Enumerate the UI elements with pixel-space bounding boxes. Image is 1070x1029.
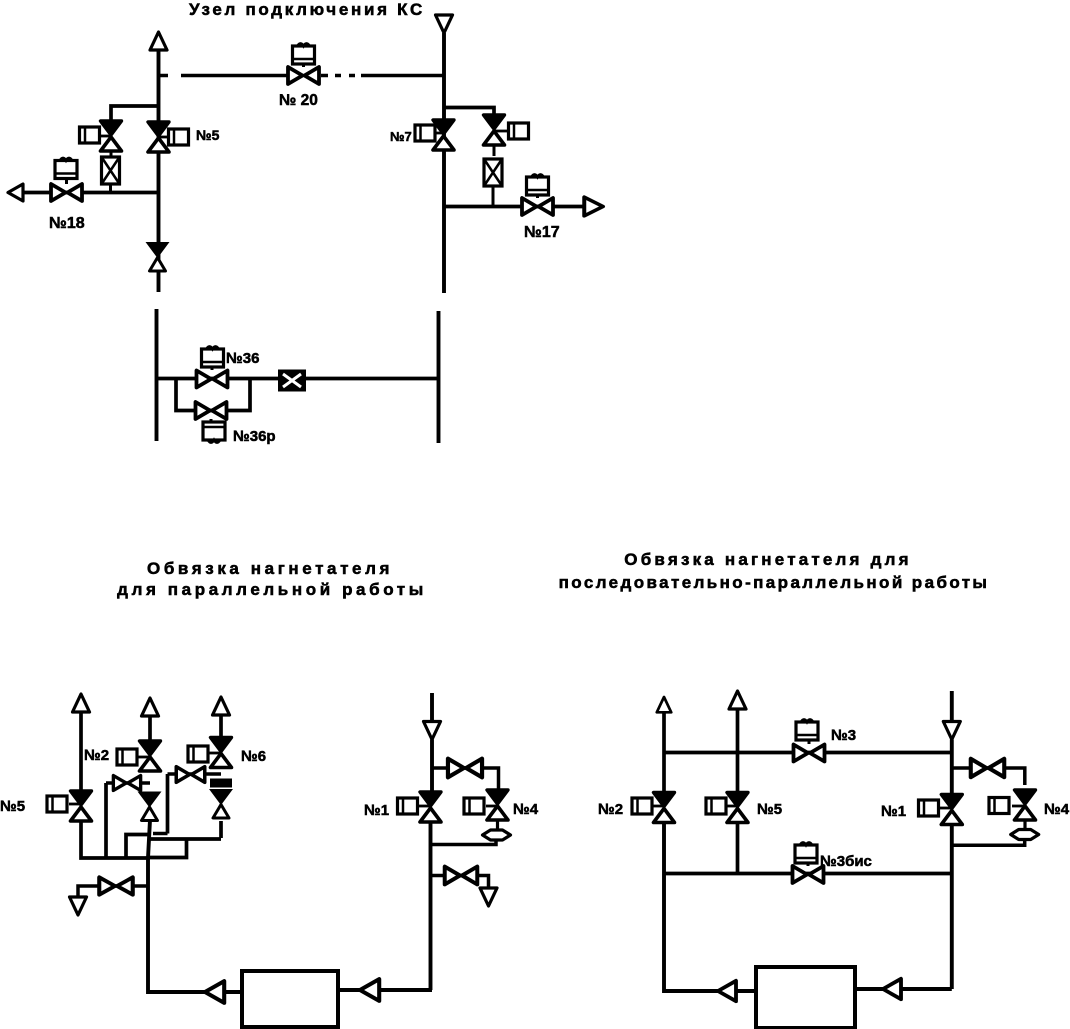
svg-text:последовательно-параллельной р: последовательно-параллельной работы [559,573,990,592]
arrow down drain [70,897,87,915]
filter (left bypass) [102,157,120,184]
wire: main right column upper [950,691,954,726]
bypass valve with actuator (right top) [484,115,505,145]
wire: mid header [150,837,221,841]
black box on line 3 [210,779,232,788]
valve №6 on line 3 [211,738,232,768]
valve on line 2 [140,741,161,771]
wire: upper header H1 [664,751,952,755]
svg-text:для параллельной работы: для параллельной работы [117,580,427,599]
wire: line 1 lower to pump [664,823,756,991]
wire: bypass 2 [168,772,222,776]
svg-text:№5: №5 [0,798,25,815]
svg-text:№5: №5 [196,127,220,143]
check valve on left header [148,243,168,271]
arrow down on discharge column [424,722,441,740]
small valve on right drain [445,867,478,885]
svg-text:№2: №2 [598,801,623,818]
arrow up line 1 [73,694,90,712]
svg-text:№4: №4 [513,801,539,818]
wire: left blowdown line [21,191,159,195]
wire: hook left [126,835,148,858]
valve №3бис with regulator [793,866,824,883]
valve №20 on crossover [288,67,319,84]
wire: filter to discharge line [492,186,495,207]
svg-text:№36: №36 [226,350,259,367]
wire: stem to filter [493,145,496,156]
arrow left at end of blowdown [8,184,23,201]
valve №4 (right diagram) [1015,790,1036,820]
orifice lens under №4 [496,820,499,830]
arrow up right-diagram line 1 [657,697,671,712]
svg-text:Узел подключения КС: Узел подключения КС [189,0,425,19]
wire: line 3 upper [219,715,223,739]
valve №1 (right diagram) [941,795,962,825]
wire: dashed crossover line [159,74,289,77]
svg-text:№17: №17 [524,224,560,241]
valve №18 with regulator [51,184,82,201]
wire: №4 branch return (right diagram) [952,840,1025,845]
wire: line 2 upper [148,716,152,742]
valve №5 on left header [148,122,169,152]
wire: drain branch right [431,876,489,889]
wire: suction riser 1 [79,712,83,791]
arrow left into pump discharge (right diagram) [718,981,736,1001]
arrow down right drain [480,888,497,906]
svg-text:№7: №7 [390,129,412,144]
wire: main right column middle [950,740,954,794]
wire: №4 branch return [431,840,497,845]
small valve on drain [99,877,132,894]
valve №36р [196,402,227,419]
svg-text:№3бис: №3бис [820,853,872,870]
arrow right at end [584,197,603,216]
arrow up line 2 [142,698,159,716]
wire: line 3 lower [219,821,223,838]
wire: jog right [149,839,187,858]
svg-text:№1: №1 [364,802,389,819]
svg-text:Обвязка нагнетателя: Обвязка нагнетателя [147,559,393,578]
wire: right header pipe upper [442,33,446,293]
wire: riser A [104,783,108,858]
small valve on bypass 2 [176,767,205,783]
svg-text:№3: №3 [831,727,856,744]
wire: №36р bypass loop [176,379,250,411]
small valve on bypass over №1 [448,759,482,778]
wire: bypass over №1 [432,768,499,789]
svg-text:№6: №6 [241,748,266,765]
svg-text:№2: №2 [84,747,109,764]
bypass valve with actuator (left top) [101,121,122,151]
svg-text:№36р: №36р [233,428,276,445]
small valve on bypass (right diagram) [971,759,1004,777]
wire: riser 1 to bottom header [81,821,150,858]
wire: line 2 lower [736,823,740,874]
pump box (right diagram) [756,967,855,1028]
svg-text:№18: №18 [49,215,85,232]
wire: drain branch left [78,886,148,897]
wire: bypass 1 [106,781,150,785]
wire: right discharge line [444,205,585,209]
valve №3 with regulator [794,745,825,762]
wire: riser B [166,774,170,834]
wire: right header pipe lower [437,311,441,443]
wire: main right column lower [950,826,954,989]
arrow left into pump suction [360,979,379,1001]
wire: left header pipe lower [155,309,159,441]
wire: lower header H2 [664,872,952,876]
arrow up line 3 [213,697,230,715]
orifice (black) on bypass line [278,370,306,392]
valve №1 (left diagram) [420,792,441,822]
wire: discharge column upper [430,693,434,726]
wire: left header pipe upper [157,50,161,292]
valve №5 (right diagram) [727,793,748,823]
arrow up right-diagram line 2 [729,691,746,709]
wire: left bypass loop top [111,106,159,121]
wire: stem to filter [110,151,113,158]
check valve on line 3 [211,790,231,818]
filter (right bypass) [484,159,502,186]
small valve on bypass 1 [113,776,140,791]
svg-text:№1: №1 [881,803,906,820]
wire: right-diagram line 2 [736,709,740,792]
valve №7 on right header [433,120,454,150]
wire: right-diagram line 1 [662,711,666,792]
pump (supercharger) box [242,971,338,1027]
wire: station bypass line №36 [157,377,439,381]
arrow left into pump suction (right diagram) [883,979,901,999]
wire: discharge column middle [430,740,434,792]
valve №36 with regulator [197,371,228,388]
check valve on line 2 [140,793,160,821]
arrow left into pump discharge [205,981,224,1003]
arrow down at top of right header pipe [436,15,453,33]
wire: riser B foot nub [153,832,168,836]
wire: bypass over №1 (right diagram) [952,768,1025,785]
wire: discharge column lower [431,823,433,990]
wire: line 2 lower to pump [148,820,242,992]
svg-text:№5: №5 [757,801,782,818]
arrow down main right column [943,722,960,740]
valve №4 (left diagram) [487,790,508,820]
wire: pump suction horizontal (right diagram) [855,987,952,991]
arrow up at top of left header pipe [150,32,167,50]
svg-text:Обвязка нагнетателя для: Обвязка нагнетателя для [624,550,911,569]
wire: filter to blowdown line [109,184,112,193]
wire: pump suction horizontal [338,988,432,992]
valve №17 with regulator [522,198,553,215]
svg-text:№ 20: № 20 [279,92,318,109]
valve №2 (right diagram) [654,793,675,823]
valve on riser 1 [71,791,92,821]
wire: right bypass loop top [444,108,495,117]
svg-text:№4: №4 [1044,801,1070,818]
orifice lens under №4 (right diagram) [1023,821,1026,829]
